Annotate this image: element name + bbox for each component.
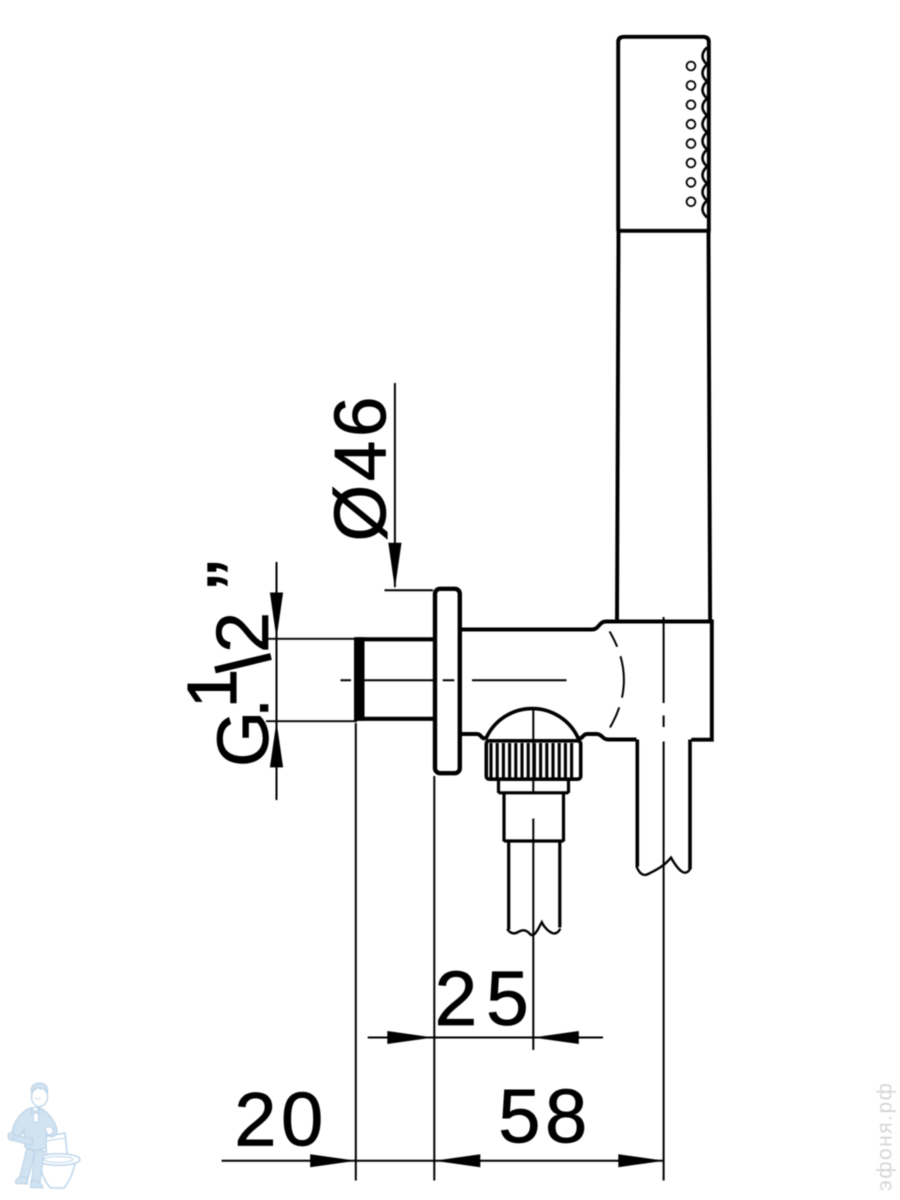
knurl lines	[491, 743, 572, 778]
body bottom edge left of dome	[461, 734, 485, 739]
G.1/2 dimension line	[276, 562, 278, 800]
svg-text:”: ”	[190, 560, 287, 589]
svg-text:Ø46: Ø46	[321, 393, 402, 541]
plumber torso and arms	[13, 1108, 57, 1151]
spray face scallops	[703, 48, 708, 218]
25 right arrow (points left)	[533, 1031, 579, 1044]
handle right edge	[709, 232, 711, 622]
hair	[31, 1083, 48, 1094]
nozzle holes	[687, 62, 696, 71]
G.1/2 bottom tick	[266, 720, 357, 722]
diameter 46 dimension line	[394, 383, 396, 587]
plumber left leg	[20, 1146, 35, 1180]
toilet bowl body	[40, 1162, 76, 1188]
diameter 46 tick at flange top	[385, 589, 434, 591]
threaded nipple bottom edge	[356, 717, 437, 721]
58 right arrow (points right)	[618, 1154, 664, 1167]
svg-text:1: 1	[173, 669, 251, 708]
label G.1/2"	[173, 560, 287, 767]
toilet bowl rim	[37, 1154, 80, 1166]
right hose break line	[636, 858, 690, 875]
vertical center line of handle holder / right hose	[663, 617, 665, 1181]
plumber right leg	[32, 1150, 45, 1183]
svg-text:5: 5	[486, 956, 529, 1042]
horizontal center line of nipple axis	[341, 679, 567, 681]
vertical center line of hose connector	[532, 710, 534, 1050]
bow tie	[32, 1109, 40, 1115]
left hose	[509, 843, 560, 930]
G.1/2 top tick	[266, 638, 357, 640]
right hand on tank	[45, 1127, 53, 1135]
handle left edge	[617, 232, 619, 622]
nipple thick end bar	[354, 637, 365, 721]
plumber right shoe	[31, 1181, 44, 1189]
collar under nut	[499, 781, 569, 794]
transition arc	[610, 632, 624, 728]
threaded nipple top edge	[356, 637, 437, 641]
bottom dimension line	[222, 1160, 665, 1162]
G.1/2 down arrow	[270, 593, 283, 639]
25 left arrow (points right)	[387, 1031, 433, 1044]
holder block bottom left segment with jog to body bottom	[579, 734, 637, 740]
holder block top and right	[462, 622, 714, 740]
svg-text:2: 2	[435, 956, 478, 1042]
svg-text:G: G	[204, 711, 284, 767]
plumber left shoe	[15, 1177, 27, 1184]
head	[32, 1088, 48, 1107]
svg-text:2: 2	[201, 612, 284, 653]
watermark plumber logo	[8, 1083, 80, 1188]
shower head bottom separator	[617, 229, 711, 233]
extension line from nipple end	[355, 723, 357, 1181]
hose fitting tube	[504, 793, 564, 842]
25 dimension line	[368, 1037, 603, 1039]
svg-text:58: 58	[498, 1075, 592, 1160]
wall flange	[435, 589, 460, 773]
face details	[35, 1098, 41, 1099]
toilet tank	[45, 1133, 68, 1159]
wrench handle	[14, 1135, 34, 1146]
right hose	[637, 740, 690, 870]
knurled nut	[486, 741, 580, 779]
58 left arrow (points left)	[434, 1154, 480, 1167]
extension line from flange left edge	[433, 776, 435, 1181]
G.1/2 up arrow	[270, 721, 283, 767]
20 arrow (points right)	[310, 1154, 356, 1167]
svg-text:20: 20	[234, 1078, 328, 1163]
wrench head	[8, 1132, 16, 1141]
diameter 46 arrow	[388, 543, 401, 589]
shower head body	[618, 37, 709, 231]
shirt	[33, 1108, 39, 1123]
dome of hose connector	[486, 709, 579, 740]
left hose break line	[507, 922, 560, 935]
svg-text:эфоня.рф: эфоня.рф	[874, 1082, 897, 1191]
